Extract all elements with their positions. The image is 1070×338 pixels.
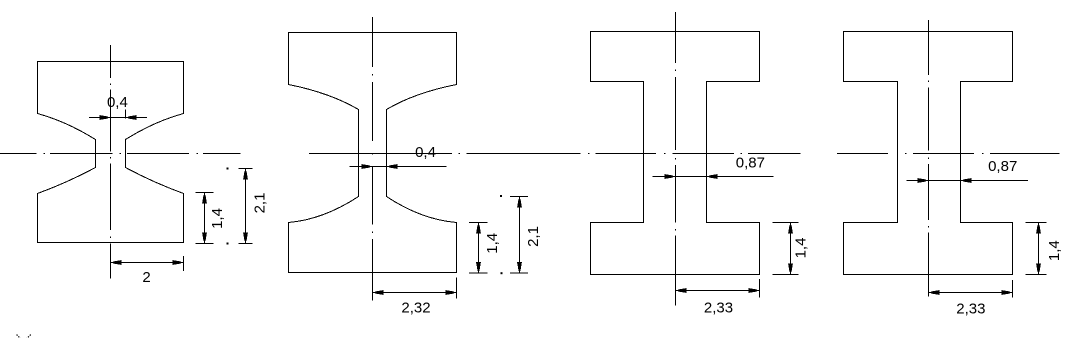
svg-text:2: 2 [142, 269, 150, 286]
svg-text:0,4: 0,4 [415, 144, 436, 161]
svg-text:2,33: 2,33 [956, 301, 985, 318]
svg-text:0,87: 0,87 [988, 158, 1017, 175]
svg-text:1,4: 1,4 [484, 233, 501, 254]
svg-text:2,32: 2,32 [401, 299, 430, 316]
svg-text:2,1: 2,1 [251, 193, 268, 214]
svg-text:1,4: 1,4 [1046, 240, 1063, 261]
svg-text:0,4: 0,4 [107, 94, 128, 111]
svg-text:0,87: 0,87 [736, 154, 765, 171]
svg-text:1,4: 1,4 [209, 208, 226, 229]
svg-text:2,33: 2,33 [704, 299, 733, 316]
svg-text:2,1: 2,1 [525, 226, 542, 247]
svg-text:1,4: 1,4 [792, 238, 809, 259]
